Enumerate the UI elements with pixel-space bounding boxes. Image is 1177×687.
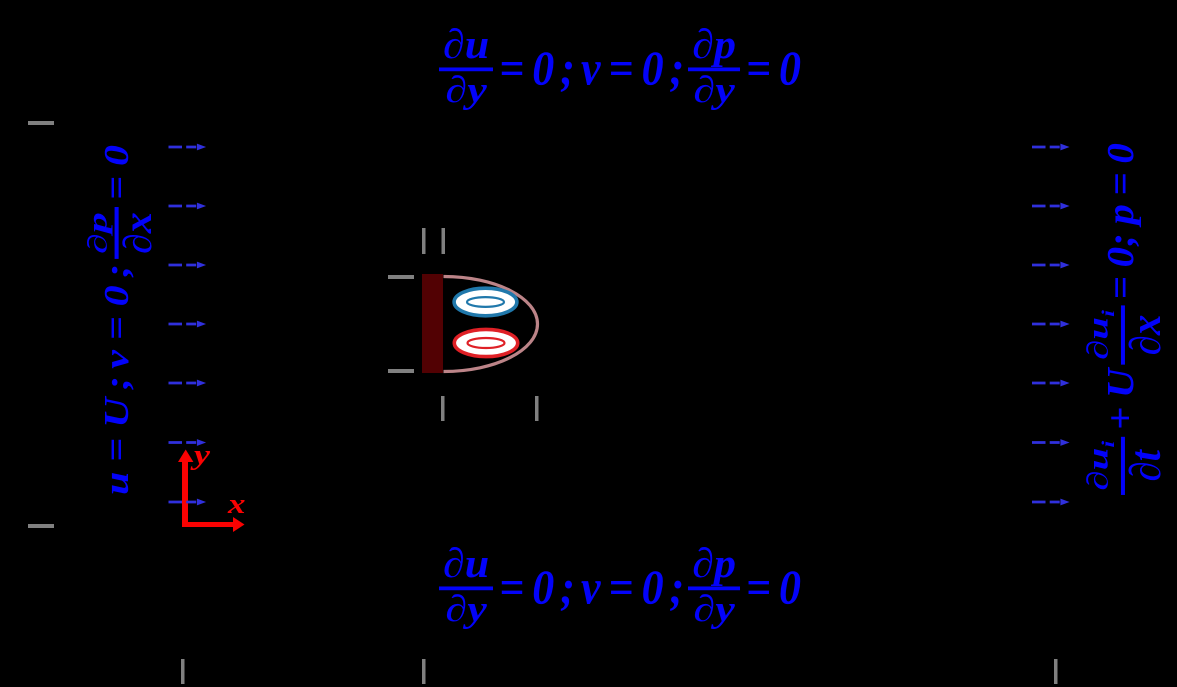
svg-text:y: y xyxy=(190,440,211,471)
svg-text:x: x xyxy=(227,489,246,520)
